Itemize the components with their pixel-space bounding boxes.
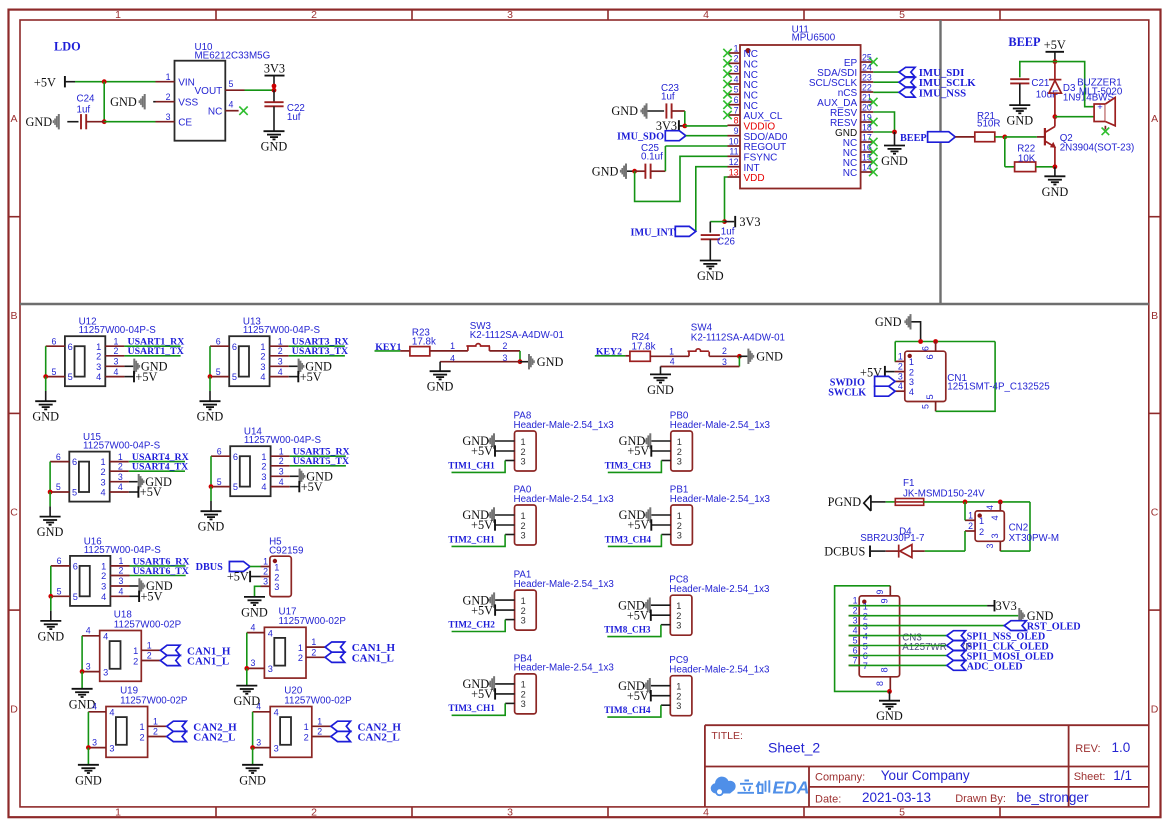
svg-text:3: 3 [92,737,97,747]
svg-text:1: 1 [153,716,158,726]
svg-text:0.1uf: 0.1uf [641,152,663,163]
svg-text:1: 1 [669,347,674,357]
svg-text:4: 4 [100,488,105,498]
svg-text:Header-Male-2.54_1x3: Header-Male-2.54_1x3 [669,584,770,595]
svg-text:F1: F1 [903,478,914,489]
svg-text:DCBUS: DCBUS [824,544,865,558]
svg-text:4: 4 [229,100,234,110]
svg-text:+5V: +5V [627,444,649,458]
svg-text:1: 1 [119,556,124,566]
svg-text:20: 20 [862,102,872,112]
svg-text:Company:: Company: [815,771,865,783]
svg-text:1: 1 [677,511,682,521]
svg-text:1: 1 [304,722,309,732]
svg-text:5: 5 [57,587,62,597]
svg-text:11257W00-02P: 11257W00-02P [120,695,188,706]
svg-text:6: 6 [925,354,935,359]
svg-text:6: 6 [51,336,56,346]
svg-text:+: + [1097,102,1103,113]
svg-text:XT30PW-M: XT30PW-M [1009,533,1059,544]
svg-text:14: 14 [862,162,872,172]
svg-text:4: 4 [898,381,903,391]
svg-text:3V3: 3V3 [264,61,285,75]
svg-text:3V3: 3V3 [996,599,1017,613]
svg-text:TIM3_CH4: TIM3_CH4 [605,535,652,545]
svg-text:1: 1 [677,437,682,447]
svg-text:1: 1 [298,643,303,653]
svg-text:CN2: CN2 [1009,522,1029,533]
svg-text:6: 6 [57,556,62,566]
svg-text:1: 1 [278,336,283,346]
svg-text:TIM8_CH3: TIM8_CH3 [604,626,651,636]
svg-text:+5V: +5V [300,370,322,384]
svg-text:3: 3 [898,371,903,381]
svg-text:1: 1 [263,557,268,567]
svg-text:TIM2_CH2: TIM2_CH2 [448,620,495,630]
svg-text:2: 2 [113,346,118,356]
svg-text:4: 4 [853,626,858,636]
svg-text:4: 4 [96,372,101,382]
svg-text:4: 4 [985,505,995,510]
svg-text:+5V: +5V [627,608,649,622]
svg-text:3: 3 [507,9,513,21]
svg-text:2: 2 [261,461,266,471]
svg-text:Date:: Date: [815,793,841,805]
svg-text:2: 2 [118,461,123,471]
svg-text:Header-Male-2.54_1x3: Header-Male-2.54_1x3 [514,663,615,674]
svg-text:Header-Male-2.54_1x3: Header-Male-2.54_1x3 [670,420,771,431]
svg-text:USART1_TX: USART1_TX [128,346,184,357]
svg-text:GND: GND [881,154,908,168]
svg-text:+5V: +5V [471,687,493,701]
svg-text:Header-Male-2.54_1x3: Header-Male-2.54_1x3 [514,420,615,431]
svg-text:2: 2 [521,447,526,457]
svg-text:2: 2 [263,567,268,577]
svg-text:1: 1 [521,680,526,690]
svg-text:1: 1 [100,457,105,467]
svg-text:GND: GND [647,383,674,397]
svg-text:7: 7 [853,655,858,665]
svg-text:1: 1 [147,640,152,650]
svg-text:1: 1 [521,437,526,447]
svg-text:2: 2 [311,9,317,21]
svg-text:SW4: SW4 [691,322,713,333]
svg-text:5: 5 [72,488,77,498]
svg-text:D: D [1151,703,1159,715]
svg-text:C26: C26 [717,237,736,248]
svg-text:9: 9 [875,590,885,595]
svg-text:8: 8 [880,667,890,672]
svg-text:IMU_INT: IMU_INT [631,227,675,238]
svg-text:4: 4 [119,587,124,597]
svg-text:1uf: 1uf [287,112,301,123]
svg-text:1: 1 [115,9,121,21]
svg-text:1251SMT-4P_C132525: 1251SMT-4P_C132525 [947,382,1050,393]
svg-text:USART5_TX: USART5_TX [293,456,349,467]
svg-text:5: 5 [233,482,238,492]
svg-text:1: 1 [676,682,681,692]
svg-text:GND: GND [37,525,64,539]
svg-text:2: 2 [119,566,124,576]
svg-text:GND: GND [697,269,724,283]
svg-text:GND: GND [197,410,224,424]
svg-text:4: 4 [274,708,279,718]
svg-text:1: 1 [274,562,279,572]
svg-text:6: 6 [73,562,78,572]
svg-text:GND: GND [592,164,619,178]
svg-text:11: 11 [729,147,738,157]
svg-text:4: 4 [268,628,273,638]
svg-text:GND: GND [1006,114,1033,128]
svg-text:4: 4 [109,708,114,718]
svg-text:2: 2 [722,346,727,356]
svg-text:1: 1 [113,336,118,346]
svg-text:5: 5 [73,592,78,602]
svg-text:GND: GND [75,773,102,787]
svg-text:17.8k: 17.8k [412,336,436,347]
svg-text:GND: GND [25,115,52,129]
svg-text:4: 4 [703,806,709,818]
svg-text:GND: GND [261,140,288,154]
svg-text:GND: GND [32,410,59,424]
svg-text:2: 2 [677,447,682,457]
svg-text:4: 4 [118,482,123,492]
svg-text:15: 15 [862,152,872,162]
svg-text:+5V: +5V [227,570,249,584]
svg-text:B: B [1151,310,1158,322]
svg-text:GND: GND [110,95,137,109]
svg-text:6: 6 [217,446,222,456]
svg-text:USART3_TX: USART3_TX [292,346,348,357]
svg-text:MPU6500: MPU6500 [792,33,836,44]
svg-text:2: 2 [96,351,101,361]
svg-text:2: 2 [521,606,526,616]
svg-text:4: 4 [113,367,118,377]
svg-text:2: 2 [979,527,984,537]
svg-text:1: 1 [898,351,903,361]
svg-text:DBUS: DBUS [196,562,224,573]
svg-text:6: 6 [233,452,238,462]
svg-text:1.0: 1.0 [1112,740,1131,755]
svg-text:2: 2 [304,732,309,742]
svg-text:3: 3 [676,701,681,711]
svg-text:VDD: VDD [744,173,765,184]
svg-text:1: 1 [261,452,266,462]
svg-text:CE: CE [178,117,192,128]
svg-text:+5V: +5V [135,370,157,384]
svg-text:3: 3 [677,456,682,466]
svg-text:11257W00-02P: 11257W00-02P [284,695,352,706]
svg-text:2: 2 [274,572,279,582]
svg-text:3: 3 [103,667,108,677]
svg-text:3: 3 [256,737,261,747]
svg-text:2: 2 [166,92,171,102]
svg-text:8: 8 [875,681,885,686]
svg-text:NC: NC [744,91,758,102]
svg-text:4: 4 [670,357,675,367]
svg-text:CAN2_L: CAN2_L [358,732,400,744]
svg-text:6: 6 [68,342,73,352]
svg-text:4: 4 [279,477,284,487]
svg-text:Header-Male-2.54_1x3: Header-Male-2.54_1x3 [514,494,615,505]
svg-text:3: 3 [985,544,995,549]
svg-text:BEEP: BEEP [900,133,927,144]
svg-text:C24: C24 [77,93,96,104]
svg-text:6: 6 [72,457,77,467]
svg-text:GND: GND [537,355,564,369]
svg-text:CAN2_L: CAN2_L [193,732,235,744]
svg-text:3: 3 [274,582,279,592]
svg-text:GND: GND [198,520,225,534]
svg-text:VDDIO: VDDIO [744,122,776,133]
svg-text:EDA: EDA [773,778,810,798]
svg-text:6: 6 [853,646,858,656]
svg-text:GND: GND [241,605,268,619]
svg-text:4: 4 [92,702,97,712]
svg-text:1uf: 1uf [661,92,675,103]
svg-text:1: 1 [139,722,144,732]
svg-text:Sheet:: Sheet: [1074,771,1106,783]
svg-text:C21: C21 [1031,78,1049,89]
svg-text:3: 3 [507,806,513,818]
svg-text:IMU_NSS: IMU_NSS [919,87,966,99]
svg-text:GND: GND [37,629,64,643]
svg-text:C: C [10,507,18,519]
svg-text:2: 2 [153,727,158,737]
svg-text:1: 1 [450,341,455,351]
svg-text:TIM3_CH3: TIM3_CH3 [605,461,652,471]
svg-text:4: 4 [863,631,868,641]
svg-text:+5V: +5V [627,689,649,703]
svg-text:2: 2 [260,351,265,361]
svg-text:USART6_TX: USART6_TX [133,566,189,577]
svg-text:9: 9 [880,598,890,603]
svg-text:9: 9 [734,126,739,136]
svg-text:2N3904(SOT-23): 2N3904(SOT-23) [1060,143,1135,154]
svg-text:10K: 10K [1018,154,1036,165]
svg-text:2: 2 [734,54,739,64]
svg-text:2021-03-13: 2021-03-13 [862,790,931,805]
svg-text:7: 7 [734,105,739,115]
svg-text:2: 2 [298,653,303,663]
svg-text:6: 6 [216,336,221,346]
svg-text:+5V: +5V [471,518,493,532]
svg-text:Header-Male-2.54_1x3: Header-Male-2.54_1x3 [669,665,770,676]
svg-text:be_stronger: be_stronger [1016,790,1089,805]
svg-text:B: B [10,310,17,322]
svg-text:3: 3 [990,533,1000,538]
svg-text:IMU_SDO: IMU_SDO [617,132,664,143]
svg-text:3: 3 [676,621,681,631]
svg-text:1: 1 [166,72,171,82]
svg-text:3: 3 [261,472,266,482]
svg-text:19: 19 [862,112,872,122]
svg-text:GND: GND [427,380,454,394]
svg-text:2: 2 [311,806,317,818]
svg-text:5: 5 [899,9,905,21]
svg-text:Header-Male-2.54_1x3: Header-Male-2.54_1x3 [670,494,771,505]
svg-text:FSYNC: FSYNC [744,153,778,164]
svg-text:3: 3 [268,664,273,674]
svg-text:2: 2 [503,341,508,351]
svg-text:5: 5 [216,367,221,377]
svg-text:MLT-5020: MLT-5020 [1079,87,1123,98]
svg-text:1/1: 1/1 [1113,768,1132,783]
svg-text:1: 1 [279,446,284,456]
svg-text:GND: GND [875,315,902,329]
svg-text:1: 1 [521,596,526,606]
svg-text:11257W00-04P-S: 11257W00-04P-S [83,441,161,452]
svg-text:3: 3 [909,377,914,387]
svg-text:11257W00-02P: 11257W00-02P [279,616,347,627]
svg-text:Header-Male-2.54_1x3: Header-Male-2.54_1x3 [514,579,615,590]
svg-text:2: 2 [677,521,682,531]
svg-text:3: 3 [734,64,739,74]
svg-text:3: 3 [521,530,526,540]
svg-text:3: 3 [853,616,858,626]
svg-text:3: 3 [260,362,265,372]
svg-text:6: 6 [232,342,237,352]
svg-text:25: 25 [862,52,872,62]
svg-text:6: 6 [920,346,930,351]
svg-text:4: 4 [101,592,106,602]
svg-text:4: 4 [261,482,266,492]
svg-text:C: C [1151,507,1159,519]
svg-text:1: 1 [968,510,973,520]
svg-text:11257W00-02P: 11257W00-02P [114,619,182,630]
svg-text:GND: GND [756,350,783,364]
svg-text:D: D [10,703,18,715]
svg-text:SWCLK: SWCLK [828,388,866,399]
svg-text:3: 3 [521,699,526,709]
svg-text:1: 1 [118,452,123,462]
svg-text:1: 1 [521,511,526,521]
svg-text:+5V: +5V [34,75,56,89]
svg-text:TIM2_CH1: TIM2_CH1 [448,535,495,545]
svg-text:1: 1 [101,562,106,572]
svg-text:2: 2 [279,456,284,466]
svg-text:17: 17 [862,132,872,142]
svg-text:3: 3 [677,530,682,540]
svg-text:11257W00-04P-S: 11257W00-04P-S [244,435,322,446]
svg-text:TIM3_CH1: TIM3_CH1 [448,704,495,714]
svg-text:2: 2 [968,521,973,531]
svg-text:1: 1 [676,601,681,611]
svg-text:CAN1_L: CAN1_L [187,656,229,668]
svg-text:1: 1 [311,637,316,647]
svg-text:+5V: +5V [471,444,493,458]
svg-text:1: 1 [853,596,858,606]
svg-text:2: 2 [676,692,681,702]
svg-text:1: 1 [317,716,322,726]
svg-text:3V3: 3V3 [739,215,760,229]
svg-text:510R: 510R [977,119,1000,130]
svg-text:3: 3 [86,661,91,671]
svg-text:+5V: +5V [301,480,323,494]
svg-text:18: 18 [862,122,872,132]
svg-text:5: 5 [853,636,858,646]
svg-text:3: 3 [863,621,868,631]
svg-text:4: 4 [260,372,265,382]
svg-text:CAN1_L: CAN1_L [352,652,394,664]
svg-text:Your Company: Your Company [881,768,970,783]
svg-text:10: 10 [729,136,739,146]
svg-text:Sheet_2: Sheet_2 [768,739,820,755]
svg-text:4: 4 [278,367,283,377]
svg-text:2: 2 [898,362,903,372]
svg-text:SBR2U30P1-7: SBR2U30P1-7 [860,533,924,544]
svg-text:TITLE:: TITLE: [711,730,743,742]
svg-text:3: 3 [521,615,526,625]
svg-text:2: 2 [100,467,105,477]
svg-text:2: 2 [676,611,681,621]
svg-text:22: 22 [862,82,872,92]
svg-text:1: 1 [115,806,121,818]
svg-text:+5V: +5V [627,518,649,532]
svg-text:4: 4 [86,626,91,636]
svg-text:REV:: REV: [1075,743,1100,755]
svg-text:1: 1 [734,43,739,53]
svg-text:3: 3 [118,472,123,482]
svg-text:2: 2 [909,367,914,377]
svg-text:2: 2 [521,690,526,700]
svg-text:+5V: +5V [1044,38,1066,52]
svg-text:3: 3 [166,112,171,122]
svg-text:12: 12 [729,157,739,167]
svg-text:1uf: 1uf [77,104,91,115]
svg-text:4: 4 [256,702,261,712]
svg-text:5: 5 [232,372,237,382]
svg-text:NC: NC [744,60,758,71]
svg-text:4: 4 [734,74,739,84]
svg-text:TIM1_CH1: TIM1_CH1 [448,461,495,471]
svg-text:GND: GND [1042,185,1069,199]
svg-text:24: 24 [862,62,872,72]
svg-text:GND: GND [239,773,266,787]
svg-text:2: 2 [147,651,152,661]
svg-text:USART4_TX: USART4_TX [132,462,188,473]
svg-text:GND: GND [611,104,638,118]
svg-text:23: 23 [862,72,872,82]
svg-text:8: 8 [734,116,739,126]
svg-text:3: 3 [278,357,283,367]
svg-text:3: 3 [521,456,526,466]
svg-text:5: 5 [56,482,61,492]
svg-text:3: 3 [109,743,114,753]
svg-text:11257W00-04P-S: 11257W00-04P-S [79,325,157,336]
svg-text:2: 2 [521,521,526,531]
svg-text:2: 2 [278,346,283,356]
svg-text:5: 5 [51,367,56,377]
svg-text:2: 2 [853,606,858,616]
svg-text:3: 3 [119,576,124,586]
svg-text:3: 3 [100,477,105,487]
svg-text:A: A [1151,113,1158,125]
svg-text:+5V: +5V [140,485,162,499]
svg-text:2: 2 [101,571,106,581]
svg-text:5: 5 [920,404,930,409]
svg-text:ADC_OLED: ADC_OLED [967,661,1023,672]
svg-text:4: 4 [103,632,108,642]
svg-text:Drawn By:: Drawn By: [955,793,1006,805]
svg-text:TIM8_CH4: TIM8_CH4 [604,706,651,716]
svg-text:6: 6 [56,452,61,462]
svg-text:PGND: PGND [828,495,862,509]
svg-text:21: 21 [862,92,872,102]
svg-text:5: 5 [68,372,73,382]
svg-text:LDO: LDO [54,40,81,54]
svg-text:GND: GND [876,709,903,723]
